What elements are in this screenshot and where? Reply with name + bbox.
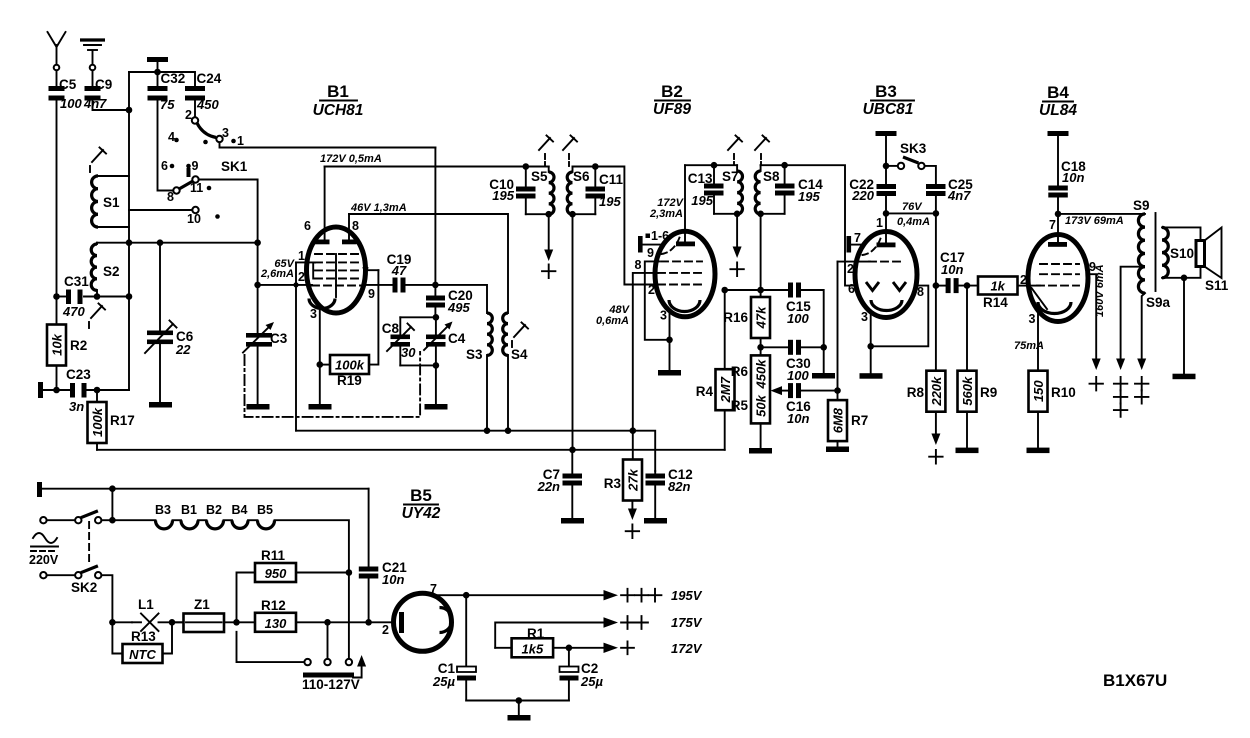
- svg-text:150: 150: [1031, 380, 1046, 402]
- tube B1 title: [313, 82, 364, 119]
- svg-text:2: 2: [185, 108, 192, 122]
- svg-text:B1X67U: B1X67U: [1103, 671, 1167, 690]
- wire 175V line with arrow: [495, 615, 702, 648]
- node B5 output: [463, 592, 470, 599]
- oscillator bus y430.7: [296, 431, 655, 471]
- ground bar B3 cathode: [860, 373, 883, 379]
- tube B3 grid-cap dashed arc: [863, 237, 882, 255]
- svg-text:B4: B4: [1047, 83, 1069, 102]
- node C10 top: [523, 163, 530, 170]
- capacitor C1 electrolytic: [432, 595, 476, 700]
- wire SK1-3 to oscillator top rail y147.5: [220, 142, 436, 147]
- node ground stem: [516, 697, 523, 704]
- node C17 right: [964, 282, 971, 289]
- svg-text:220k: 220k: [929, 376, 944, 407]
- resistor R19: [320, 270, 379, 388]
- svg-text:220: 220: [851, 188, 874, 203]
- svg-text:10n: 10n: [382, 572, 404, 587]
- node detector: [757, 287, 764, 294]
- wire C4 bottom to ground: [435, 365, 437, 404]
- wire C8-C4 bottom rail: [400, 364, 436, 366]
- wire node down to SK2 pole1: [111, 489, 113, 521]
- svg-text:1: 1: [876, 216, 883, 230]
- svg-text:9: 9: [647, 246, 654, 260]
- pin 7 label and wire: [430, 582, 466, 596]
- wire antenna to C5: [56, 71, 58, 87]
- wire 46V line pin8 to S4: [349, 214, 508, 313]
- capacitor C12: [646, 467, 693, 518]
- svg-text:SK1: SK1: [221, 159, 248, 174]
- node C21 bottom: [365, 619, 372, 626]
- node S4 on bus: [505, 427, 512, 434]
- inductor S2: [91, 243, 119, 297]
- svg-text:130: 130: [265, 616, 287, 631]
- svg-text:27k: 27k: [626, 468, 641, 491]
- tube B3 title: [863, 82, 914, 118]
- svg-text:2: 2: [648, 283, 655, 297]
- svg-text:82n: 82n: [668, 479, 690, 494]
- tube B3 diode plates: [866, 282, 906, 291]
- svg-text:9: 9: [192, 159, 199, 173]
- wire heater end to drop: [275, 520, 349, 662]
- svg-text:3: 3: [1029, 312, 1036, 326]
- svg-text:L1: L1: [138, 597, 154, 612]
- wire ground stem: [518, 701, 520, 716]
- svg-text:R6: R6: [731, 364, 749, 379]
- heater winding B3: [155, 503, 173, 529]
- tube B2 anode riser: [684, 165, 686, 241]
- node R16 bottom: [757, 344, 764, 351]
- pin 9 label and loop: [645, 246, 670, 340]
- capacitor C10: [489, 167, 535, 215]
- svg-text:R17: R17: [110, 413, 135, 428]
- wire S6 bottom to AVC bus: [572, 214, 574, 450]
- svg-text:470: 470: [62, 304, 85, 319]
- svg-text:3n: 3n: [69, 399, 84, 414]
- label 172V 2,3mA: [649, 197, 685, 220]
- chassis terminal at C23: [38, 382, 70, 398]
- trimmer mark at S1: [90, 148, 106, 173]
- svg-text:S1: S1: [103, 195, 120, 210]
- variable capacitor C4: [424, 317, 466, 365]
- svg-text:560k: 560k: [960, 376, 975, 406]
- node bus y242.7 at x257.6: [254, 239, 261, 246]
- resistor R12: [255, 598, 394, 632]
- pin 6 label and diode wire: [848, 282, 855, 296]
- svg-text:3: 3: [222, 126, 229, 140]
- svg-text:195V: 195V: [671, 588, 703, 603]
- svg-text:R8: R8: [907, 385, 925, 400]
- node R17 top: [94, 387, 101, 394]
- node R12 right tap: [324, 619, 331, 626]
- svg-text:B4: B4: [232, 503, 248, 517]
- node L1 right / NTC branch: [169, 619, 176, 626]
- arrow up at tap bar: [353, 655, 366, 678]
- wire main left riser x129: [128, 72, 130, 390]
- svg-text:0,6mA: 0,6mA: [596, 315, 629, 327]
- tube B1 anode bars: [315, 240, 357, 245]
- svg-text:2: 2: [1020, 273, 1027, 287]
- label 65V 2,6mA: [260, 258, 296, 280]
- tube B1 center support: [335, 254, 337, 297]
- svg-text:B1: B1: [181, 503, 197, 517]
- svg-text:2: 2: [847, 262, 854, 276]
- svg-text:SK2: SK2: [71, 580, 97, 595]
- antenna symbol: [48, 32, 66, 70]
- wire C24 to SK1 contact 2: [194, 101, 196, 118]
- svg-text:110-127V: 110-127V: [302, 677, 360, 692]
- variable capacitor C6: [145, 239, 194, 402]
- pin 2 label and wire 65V feed: [258, 270, 312, 285]
- wire C9 to node x129: [93, 101, 130, 111]
- svg-text:R14: R14: [983, 295, 1008, 310]
- resistor R1: [495, 626, 569, 657]
- tube B5 cathode hook: [440, 608, 453, 633]
- svg-text:NTC: NTC: [129, 647, 156, 662]
- svg-text:9: 9: [368, 287, 375, 301]
- node at C9 wire junction: [126, 107, 133, 114]
- wire pin1 node down to osc bus: [295, 285, 297, 431]
- pin 9 label and screen wire: [1087, 260, 1096, 360]
- svg-text:UL84: UL84: [1039, 102, 1077, 119]
- tap circles 110-127V: [237, 622, 360, 692]
- tube B1 cathode arc: [309, 299, 335, 309]
- svg-text:B5: B5: [410, 486, 432, 505]
- svg-text:172V: 172V: [671, 641, 703, 656]
- node C20 bottom: [433, 314, 440, 321]
- svg-text:8: 8: [352, 219, 359, 233]
- resistor R11: [237, 548, 349, 622]
- S9a bottom wire to plus column: [1135, 293, 1148, 404]
- capacitor C9: [83, 77, 112, 111]
- svg-text:47k: 47k: [754, 306, 769, 329]
- node S5 bottom: [545, 211, 552, 218]
- svg-text:10n: 10n: [787, 411, 809, 426]
- svg-text:2: 2: [298, 270, 305, 284]
- capacitor C16 with wiper arrow: [771, 383, 838, 426]
- trimmer mark at S2: [89, 304, 105, 329]
- svg-text:1k: 1k: [990, 279, 1005, 294]
- arrow to plus below R3: [626, 501, 639, 539]
- svg-text:46V 1,3mA: 46V 1,3mA: [350, 202, 407, 214]
- svg-text:B5: B5: [257, 503, 273, 517]
- node 76V right: [933, 210, 940, 217]
- heater winding B1: [181, 503, 198, 529]
- trimmer mark at S5: [539, 136, 553, 167]
- node C19-C20 junction: [432, 282, 439, 289]
- inductor S3: [466, 313, 492, 431]
- tube B3 envelope: [855, 232, 917, 318]
- tube B2 anode bar: [676, 242, 695, 247]
- lamp L1: [132, 597, 184, 631]
- pin 3 label and cathode wire: [1029, 308, 1038, 371]
- wire SK1-10 to x129: [129, 209, 192, 211]
- svg-text:7: 7: [854, 231, 861, 245]
- node C4 bottom: [433, 362, 440, 369]
- ground bar below C15-C30 leg: [812, 373, 835, 379]
- svg-text:1k5: 1k5: [522, 641, 544, 656]
- output transformer S9a: [1138, 267, 1170, 310]
- capacitor C24: [185, 71, 222, 112]
- svg-text:S4: S4: [511, 347, 528, 362]
- node 65V feed: [254, 282, 261, 289]
- capacitor C22: [849, 166, 896, 214]
- svg-text:450k: 450k: [754, 359, 769, 390]
- tube B4 internal grid slant: [1032, 288, 1048, 309]
- svg-text:8: 8: [917, 285, 924, 299]
- terminal bar above C22: [876, 131, 897, 166]
- output transformer S9: [1133, 198, 1150, 267]
- tube B5 anode bar: [399, 612, 404, 633]
- wire x435.4 oscillator drop: [434, 148, 436, 296]
- node above SK2 pole1: [109, 485, 116, 492]
- svg-text:6: 6: [161, 159, 168, 173]
- svg-text:R4: R4: [696, 384, 714, 399]
- node 76V left: [883, 210, 890, 217]
- node S10 bottom: [1181, 275, 1188, 282]
- capacitor C7: [537, 450, 582, 518]
- wire 76V: [886, 212, 936, 214]
- rotary switch SK1: [161, 108, 248, 226]
- resistor R13 NTC: [112, 622, 172, 663]
- SK2 gang dashed link: [88, 522, 90, 564]
- resistor R3: [604, 460, 642, 501]
- wire SK1-11 right and down x257.6: [199, 180, 258, 336]
- node antenna line at C31: [53, 293, 60, 300]
- node B2 cathode loop: [666, 337, 673, 344]
- resistor R14: [978, 277, 1029, 311]
- wire S8-C14 bottom rail: [761, 213, 785, 215]
- svg-text:S10: S10: [1170, 246, 1194, 261]
- svg-text:UY42: UY42: [402, 505, 441, 522]
- svg-text:C11: C11: [599, 172, 624, 187]
- svg-text:450: 450: [196, 97, 219, 112]
- tube B4 envelope: [1028, 235, 1088, 322]
- heater winding B2: [206, 503, 224, 529]
- node C14 top: [781, 162, 788, 169]
- svg-text:100: 100: [787, 311, 809, 326]
- wire R4 leg down: [724, 290, 726, 369]
- pin 3 label and cathode wire: [660, 309, 669, 371]
- pin 8 label and diode loop: [871, 285, 929, 346]
- mains switch SK2 pole 1: [40, 511, 112, 524]
- node cathode loop: [867, 343, 874, 350]
- tube B5 envelope: [394, 593, 452, 651]
- capacitor C14: [775, 165, 823, 214]
- svg-text:7: 7: [430, 582, 437, 596]
- resistor R7: [828, 400, 868, 446]
- svg-text:75mA: 75mA: [1014, 340, 1044, 352]
- pin 1 label and anode riser: [876, 213, 886, 243]
- svg-text:R5: R5: [731, 398, 749, 413]
- capacitor C2 electrolytic: [560, 648, 604, 701]
- svg-text:C32: C32: [161, 71, 186, 86]
- capacitor C13: [688, 165, 724, 214]
- potentiometer R6 R5: [731, 347, 770, 448]
- node C16 right on grid leg: [834, 387, 841, 394]
- pin 3 label and cathode wire: [861, 310, 871, 373]
- label 48V 0,6mA: [596, 304, 631, 327]
- wire junction to S3 top: [435, 285, 487, 313]
- trimmer mark at S6: [563, 136, 577, 167]
- resistor R4: [696, 369, 735, 450]
- pin 9 label and wire: [363, 285, 393, 301]
- tube B2 envelope: [655, 231, 715, 317]
- ground symbol top: [80, 40, 105, 70]
- svg-text:0,4mA: 0,4mA: [897, 216, 930, 228]
- svg-text:C5: C5: [59, 77, 77, 92]
- wire IF2 primary rail: [685, 164, 737, 166]
- svg-text:11: 11: [190, 181, 203, 195]
- terminal bar above C18: [1048, 131, 1069, 186]
- node C32 top: [154, 69, 161, 76]
- trimmer mark at S7: [728, 136, 742, 166]
- wire IF2 secondary rail to B3 diode: [761, 165, 857, 285]
- capacitor C20: [426, 288, 473, 317]
- svg-text:8: 8: [167, 190, 174, 204]
- tube B4 anode bar: [1048, 242, 1067, 247]
- svg-text:2: 2: [382, 623, 389, 637]
- wire S6-C11 top rail to B2 grid: [573, 167, 656, 285]
- svg-text:UF89: UF89: [653, 101, 691, 118]
- svg-text:3: 3: [660, 309, 667, 323]
- svg-text:7: 7: [1049, 218, 1056, 232]
- pin 8 label and wire: [633, 258, 658, 460]
- svg-text:S9a: S9a: [1146, 295, 1171, 310]
- svg-text:R7: R7: [851, 413, 868, 428]
- svg-text:10n: 10n: [1062, 170, 1084, 185]
- svg-text:195: 195: [691, 193, 713, 208]
- svg-text:10k: 10k: [50, 333, 65, 355]
- capacitor C25: [926, 177, 973, 213]
- label 76V 0,4mA: [897, 201, 930, 228]
- svg-text:30: 30: [401, 345, 416, 360]
- svg-text:S9: S9: [1133, 198, 1150, 213]
- chassis terminal bottom left: [37, 482, 369, 497]
- svg-text:6: 6: [848, 282, 855, 296]
- wire SK2 pole2 to heater row: [101, 575, 132, 622]
- svg-text:160V 6mA: 160V 6mA: [1094, 264, 1106, 317]
- wire C10-S5 bottom rail: [526, 213, 549, 215]
- wire between heaters: [248, 519, 258, 521]
- svg-text:R9: R9: [980, 385, 997, 400]
- capacitor C11: [586, 167, 624, 215]
- node SK3 left: [883, 163, 890, 170]
- svg-text:22n: 22n: [537, 479, 560, 494]
- svg-text:220V: 220V: [29, 553, 59, 567]
- inductor S4: [503, 313, 528, 431]
- svg-text:2,3mA: 2,3mA: [649, 208, 683, 220]
- svg-text:50k: 50k: [754, 394, 769, 416]
- tube B5 title: [402, 486, 441, 522]
- svg-text:10: 10: [187, 212, 201, 226]
- svg-text:S7: S7: [722, 169, 739, 184]
- svg-text:R12: R12: [261, 598, 286, 613]
- svg-text:S8: S8: [763, 169, 780, 184]
- tube B3 grid row: [869, 261, 904, 263]
- wire detector node left to R4 leg: [725, 289, 761, 291]
- svg-text:Z1: Z1: [194, 597, 210, 612]
- ground bar below C1-C2: [508, 715, 531, 721]
- ground bar below R10: [1027, 448, 1050, 454]
- fuse Z1: [172, 597, 255, 632]
- wire C1-C2 bottom rail: [466, 700, 569, 702]
- tube B2 grid rows: [658, 261, 702, 284]
- wire C32 to SK1 contact 8: [158, 101, 174, 191]
- svg-text:100k: 100k: [335, 358, 365, 373]
- node S6 drop on AVC bus: [569, 447, 576, 454]
- ground bar below R9: [956, 448, 979, 454]
- node R19 left: [317, 361, 324, 368]
- tube B3 cathode arc: [871, 300, 902, 311]
- wire C5 down antenna line: [56, 101, 58, 297]
- svg-text:195: 195: [492, 188, 514, 203]
- svg-text:195: 195: [599, 194, 621, 209]
- svg-text:25µ: 25µ: [432, 674, 455, 689]
- inductor S7: [722, 165, 742, 214]
- ground bar below C12: [644, 518, 667, 524]
- pin 7 label and anode stem: [1049, 214, 1058, 243]
- resistor R9: [958, 286, 998, 448]
- pin 2 label and grid wire: [1020, 273, 1040, 287]
- node C11 top: [592, 163, 599, 170]
- node SK2 pole1 right: [109, 517, 116, 524]
- arrow to plus below S7: [730, 214, 743, 276]
- resistor R16: [723, 290, 770, 347]
- arrow to plus below R8: [929, 412, 942, 464]
- svg-text:S5: S5: [531, 169, 548, 184]
- wire between heaters: [173, 519, 182, 521]
- bus y242.7: [97, 242, 258, 244]
- transformer core bar: [1155, 213, 1157, 291]
- inductor S6: [567, 167, 590, 215]
- wire B3 grid leg: [837, 262, 839, 401]
- node L1 left / NTC branch: [109, 619, 116, 626]
- svg-text:195: 195: [798, 189, 820, 204]
- mains symbol 220V: [29, 533, 59, 567]
- resistor R2: [47, 297, 87, 391]
- resistor R17: [88, 390, 135, 450]
- gang dash-dot link C3 to C4: [245, 352, 421, 417]
- pin 1 label and wire: [296, 249, 315, 263]
- node C13 top: [711, 162, 718, 169]
- node S8 bottom: [757, 211, 764, 218]
- trimmer mark at S4: [512, 323, 528, 348]
- pin 6 label and riser: [304, 167, 325, 242]
- svg-text:C24: C24: [197, 71, 222, 86]
- ground bar below C4: [425, 404, 448, 410]
- wire C31 row y296.5: [57, 296, 67, 298]
- svg-text:47: 47: [391, 263, 407, 278]
- svg-text:1-6: 1-6: [651, 229, 669, 243]
- svg-text:UBC81: UBC81: [863, 101, 914, 118]
- svg-text:4n7: 4n7: [947, 188, 971, 203]
- tube B2 title: [653, 82, 691, 118]
- svg-text:22: 22: [175, 342, 191, 357]
- capacitor C23: [66, 367, 91, 414]
- ground bar below S10: [1173, 374, 1196, 380]
- pin 8 label and riser: [349, 214, 359, 241]
- svg-text:R13: R13: [131, 629, 156, 644]
- ground bar below C6: [149, 402, 172, 408]
- wire C13-S7 bottom rail: [714, 213, 737, 215]
- node pin8 wire on osc bus: [630, 427, 637, 434]
- svg-text:10n: 10n: [941, 262, 963, 277]
- arrow to plus below S5: [542, 214, 555, 278]
- svg-text:B3: B3: [155, 503, 171, 517]
- mains switch SK2 pole 2: [40, 566, 101, 595]
- trimmer mark at S8: [755, 136, 769, 166]
